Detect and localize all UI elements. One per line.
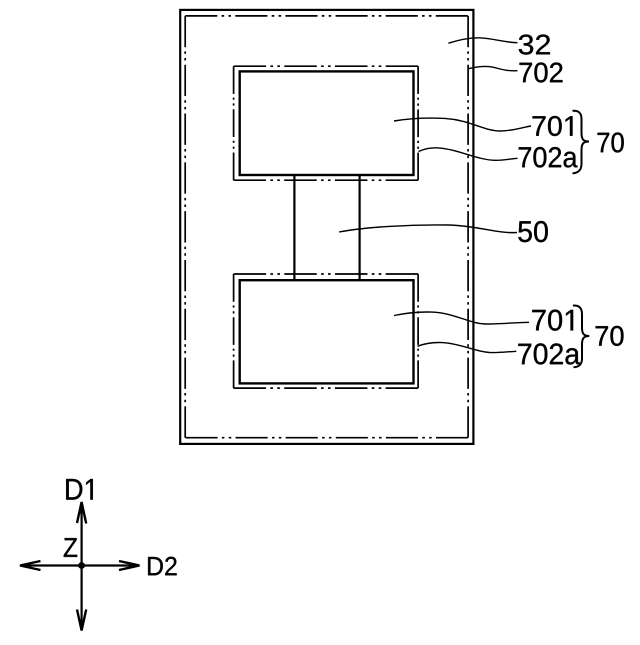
top chip phantom rect 702a [234,66,419,180]
phantom boundary rect 702 [185,16,468,438]
axis vertical shaft [80,503,82,629]
brace 70 top [573,111,590,174]
axis up arrowhead (D1) [77,502,86,524]
connector 50 (two vertical lines) [294,175,359,280]
label D1 [66,479,93,500]
leader line to top 701 [394,118,531,131]
leader line to 702 [469,66,518,70]
label Z [64,538,77,557]
label bottom 702a [518,343,580,364]
label D2 [148,557,177,576]
leader line to 50 [339,225,517,233]
label 702 [520,63,563,83]
bottom chip phantom rect 702a [234,274,419,388]
outer package rect 32 [180,10,473,444]
label 32 [519,35,550,55]
label 70 bottom [596,326,624,346]
label 50 [518,221,548,242]
leader line to bottom 701 [394,312,529,324]
brace 70 bottom [573,306,589,368]
axis right arrowhead [119,561,140,570]
axis left arrowhead [20,561,41,570]
axis down arrowhead [77,610,86,631]
label top 701 [533,116,573,136]
axis origin dot Z [78,562,85,569]
leader line to bottom 702a [418,342,517,352]
label bottom 701 [532,310,573,331]
top chip rect 701 [240,71,414,175]
axis horizontal shaft [21,564,139,566]
leader line to top 702a [419,148,518,160]
label 70 top [598,133,624,153]
bottom chip rect 701 [240,280,414,383]
leader line to 32 [448,38,517,43]
label top 702a [519,147,578,168]
